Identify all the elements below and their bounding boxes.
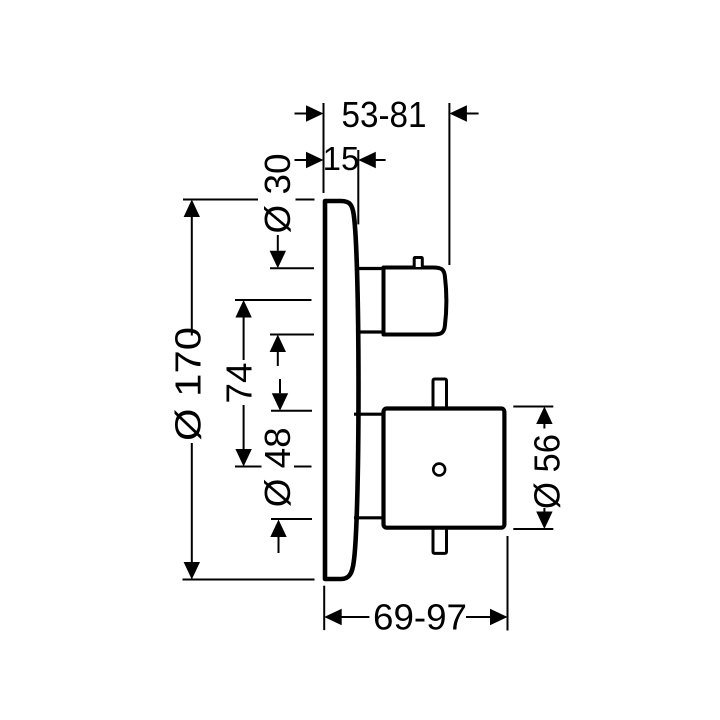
thermostat handle (square, Ø56): [384, 409, 505, 528]
dimension 15: [295, 150, 386, 224]
dimension Ø170 (left): [183, 200, 315, 580]
svg-text:Ø 170: Ø 170: [168, 327, 209, 441]
top handle index tab: [414, 258, 422, 268]
svg-text:74: 74: [219, 363, 260, 404]
svg-text:Ø 30: Ø 30: [257, 154, 298, 234]
bottom handle sleeve: [354, 414, 385, 518]
svg-text:53-81: 53-81: [342, 94, 427, 135]
top spindle: [433, 379, 447, 410]
dimension 53-81 (top): [295, 103, 479, 265]
svg-text:15: 15: [323, 140, 360, 177]
bottom spindle: [433, 526, 447, 553]
dimension Ø30: [270, 235, 314, 366]
top handle (shut-off, Ø30): [384, 268, 447, 335]
dimension Ø56 (right): [513, 407, 553, 530]
dimension Ø48: [271, 379, 312, 553]
handle center pin: [433, 464, 445, 476]
escutcheon plate (side view, Ø170): [325, 201, 359, 579]
dimension 69-97 (bottom): [324, 536, 507, 631]
svg-text:69-97: 69-97: [373, 597, 467, 638]
dimension 74: [235, 300, 312, 467]
svg-text:Ø 56: Ø 56: [527, 434, 568, 509]
svg-text:Ø 48: Ø 48: [257, 427, 298, 507]
top handle sleeve: [356, 269, 383, 333]
